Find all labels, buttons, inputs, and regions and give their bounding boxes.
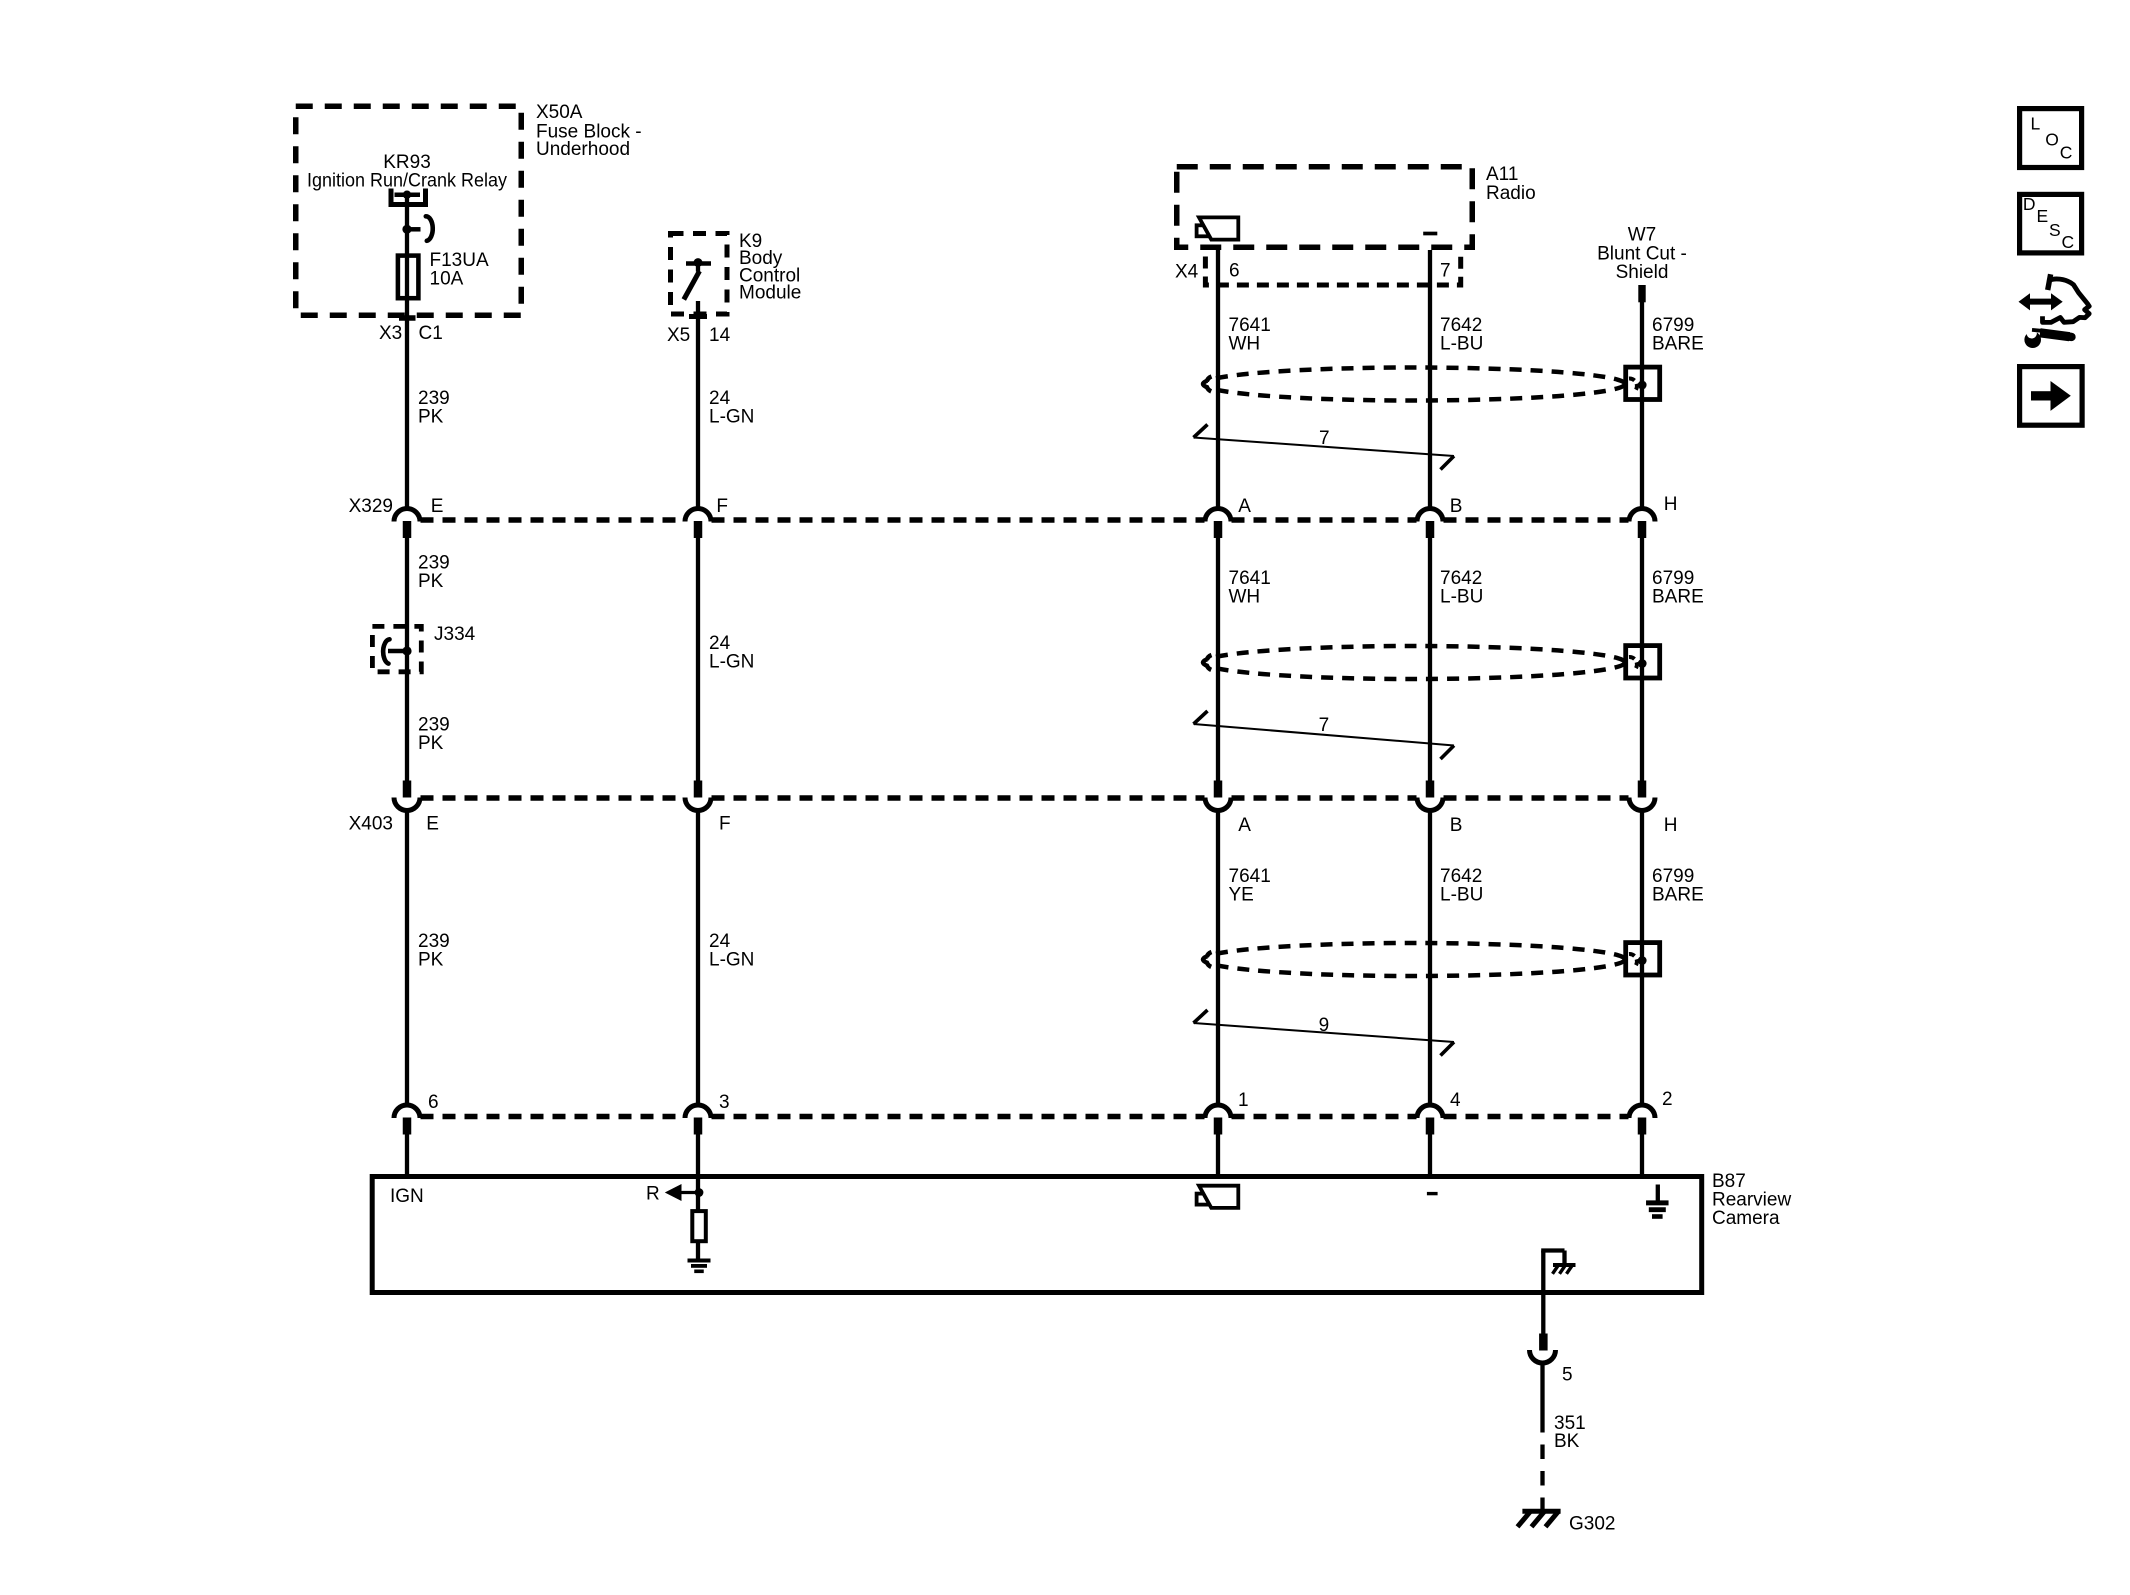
relay KR93 contact: [391, 189, 433, 241]
svg-text:L: L: [2031, 113, 2041, 133]
connector X403 pin B: [1417, 781, 1443, 811]
label connector X3 C1: [379, 323, 443, 344]
svg-text:10A: 10A: [430, 269, 464, 290]
svg-text:PK: PK: [418, 406, 444, 427]
wire 24 L-GN column (reverse signal): [696, 301, 700, 1193]
svg-text:BARE: BARE: [1652, 586, 1704, 607]
wire 239 PK column (ignition feed): [405, 195, 409, 1178]
svg-text:C1: C1: [419, 323, 443, 344]
wire 7642 L-BU column (camera return): [1428, 250, 1432, 1178]
svg-text:WH: WH: [1229, 586, 1261, 607]
svg-text:Module: Module: [739, 283, 801, 304]
svg-text:B: B: [1450, 496, 1463, 517]
wire 351 BK: [1540, 1363, 1544, 1509]
svg-text:X5: X5: [667, 325, 690, 346]
icon LOC box: [2020, 109, 2082, 168]
splice J334 box: [372, 626, 421, 671]
camera icon (in A11 radio box): [1197, 217, 1239, 239]
resistor (reverse pull): [692, 1193, 706, 1259]
svg-text:14: 14: [709, 325, 731, 346]
label wire 239 PK (section 1): [418, 388, 450, 427]
svg-text:E: E: [431, 496, 444, 517]
connector X4 dashed outline: [1205, 257, 1460, 286]
svg-text:Ignition Run/Crank Relay: Ignition Run/Crank Relay: [307, 171, 507, 192]
label W7 Blunt Cut - Shield: [1597, 225, 1687, 284]
svg-text:L-GN: L-GN: [709, 652, 754, 673]
mini chassis ground symbol: [1553, 1265, 1576, 1274]
svg-text:BK: BK: [1554, 1431, 1580, 1452]
camera connector row dashed line: [421, 1114, 1629, 1120]
minus pin (in B87 box): [1427, 1192, 1438, 1195]
label wire 239 PK (section 2 upper): [418, 553, 450, 592]
label wire 7642 L-BU (section 2): [1440, 568, 1483, 607]
label wire 24 L-GN (section 3): [709, 931, 754, 970]
connector X329 pin H: [1629, 509, 1655, 538]
svg-text:YE: YE: [1229, 884, 1254, 905]
connector camera pin 5: [1530, 1334, 1556, 1364]
shield symbol (section 2): [1203, 646, 1660, 679]
svg-text:PK: PK: [418, 571, 444, 592]
wire 6799 BARE column (shield drain): [1640, 301, 1644, 1178]
connector row X329 dashed line: [421, 517, 1629, 523]
label KR93 Ignition Run/Crank Relay: [307, 152, 507, 192]
label connector X4 pins 6 7: [1175, 261, 1451, 283]
svg-text:X403: X403: [349, 814, 393, 835]
svg-text:L-BU: L-BU: [1440, 586, 1483, 607]
svg-text:1: 1: [1238, 1090, 1249, 1111]
splice J334 symbol: [383, 639, 411, 663]
svg-text:L-GN: L-GN: [709, 949, 754, 970]
svg-text:9: 9: [1319, 1015, 1330, 1036]
svg-text:C: C: [2060, 143, 2073, 163]
signal ground (below resistor): [688, 1261, 711, 1272]
connector camera pin 2: [1629, 1105, 1655, 1135]
svg-text:J334: J334: [434, 624, 476, 645]
label wire 6799 BARE (section 2): [1652, 568, 1704, 607]
svg-text:H: H: [1664, 815, 1678, 836]
svg-text:D: D: [2023, 194, 2036, 214]
connector camera pin 4: [1417, 1105, 1443, 1135]
svg-text:WH: WH: [1229, 333, 1261, 354]
svg-text:W7: W7: [1628, 225, 1657, 246]
svg-text:X3: X3: [379, 323, 402, 344]
svg-text:Underhood: Underhood: [536, 139, 630, 160]
svg-text:PK: PK: [418, 949, 444, 970]
svg-text:4: 4: [1450, 1090, 1461, 1111]
connector X329 pin E: [394, 509, 420, 538]
svg-text:BARE: BARE: [1652, 333, 1704, 354]
label wire 239 PK (section 2 lower): [418, 715, 450, 754]
svg-text:PK: PK: [418, 733, 444, 754]
twisted pair callout 7 (section 2): [1194, 711, 1455, 759]
wire 7641 WH/YE column (camera signal): [1216, 250, 1220, 1178]
icon vehicle with arrows and wrench: [2019, 274, 2090, 348]
label row X329: [349, 494, 1678, 517]
twisted pair callout 7 (section 1): [1194, 425, 1455, 470]
ground G302: [1518, 1511, 1561, 1527]
connector X329 pin F: [685, 509, 711, 538]
shield symbol (section 1): [1203, 367, 1660, 400]
label connector X5 14: [667, 325, 731, 346]
label wire 239 PK (section 3): [418, 931, 450, 970]
label wire 7642 L-BU (section 1): [1440, 315, 1483, 354]
connector camera pin 3: [685, 1105, 711, 1135]
connector X403 pin E: [394, 781, 420, 811]
svg-text:IGN: IGN: [390, 1186, 424, 1207]
radio A11 box: [1177, 167, 1473, 248]
icon DESC box: [2020, 194, 2082, 253]
connector X403 pin H: [1629, 781, 1655, 811]
icon next-page arrow box: [2020, 367, 2083, 426]
svg-text:L-GN: L-GN: [709, 406, 754, 427]
svg-text:5: 5: [1562, 1365, 1573, 1386]
svg-text:C: C: [2062, 232, 2075, 252]
label wire 7641 WH (section 1): [1229, 315, 1271, 354]
label wire 7641 YE (section 3): [1229, 866, 1271, 905]
svg-text:2: 2: [1662, 1089, 1673, 1110]
label wire 7641 WH (section 2): [1229, 568, 1271, 607]
svg-text:BARE: BARE: [1652, 884, 1704, 905]
label row X403: [349, 814, 1678, 837]
earth ground bars: [1646, 1203, 1669, 1217]
label wire 6799 BARE (section 3): [1652, 866, 1704, 905]
label B87 Rearview Camera: [1712, 1171, 1791, 1229]
earth ground (pin 2, in B87 box): [1656, 1185, 1660, 1202]
label K9 Body Control Module: [739, 231, 801, 304]
svg-text:H: H: [1664, 494, 1678, 515]
camera B87 box: [372, 1177, 1702, 1293]
connector X403 pin F: [685, 781, 711, 811]
label wire 24 L-GN (section 2): [709, 633, 754, 673]
svg-text:E: E: [2037, 206, 2049, 226]
internal chassis ground bracket: [1541, 1251, 1564, 1334]
connector camera pin 6: [394, 1105, 420, 1135]
label X50A Fuse Block - Underhood: [536, 102, 642, 160]
conductor count callout 9 (section 3): [1194, 1010, 1455, 1056]
shield symbol (section 3): [1203, 943, 1660, 976]
label wire 7642 L-BU (section 3): [1440, 866, 1483, 905]
minus pin (in A11 radio box): [1423, 232, 1437, 236]
connector row X403 dashed line: [421, 795, 1629, 801]
label wire 351 BK: [1554, 1413, 1586, 1452]
connector X403 pin A: [1205, 781, 1231, 811]
svg-text:X50A: X50A: [536, 102, 583, 123]
svg-text:3: 3: [719, 1092, 730, 1113]
label wire 6799 BARE (section 1): [1652, 315, 1704, 354]
svg-text:A: A: [1238, 496, 1251, 517]
connector X329 pin B: [1417, 509, 1443, 538]
svg-text:S: S: [2049, 220, 2061, 240]
fuse block X50A box: [296, 106, 522, 318]
reverse input R node: [665, 1184, 704, 1201]
connector X329 pin A: [1205, 509, 1231, 538]
svg-text:O: O: [2045, 129, 2059, 149]
svg-text:X329: X329: [349, 496, 393, 517]
svg-text:7: 7: [1319, 428, 1330, 449]
svg-text:L-BU: L-BU: [1440, 884, 1483, 905]
svg-text:X4: X4: [1175, 262, 1199, 283]
svg-text:B: B: [1450, 815, 1463, 836]
svg-text:6: 6: [428, 1092, 439, 1113]
connector camera pin 1: [1205, 1105, 1231, 1135]
svg-text:Camera: Camera: [1712, 1208, 1780, 1229]
svg-text:7: 7: [1440, 261, 1451, 282]
fuse F13UA 10A: [398, 256, 419, 299]
svg-text:6: 6: [1229, 261, 1240, 282]
svg-text:F: F: [716, 496, 728, 517]
label F13UA 10A: [430, 250, 489, 290]
label camera row pins 6 3 1 4 2: [428, 1089, 1673, 1113]
switch (K9 internal driver): [684, 258, 711, 299]
svg-text:F: F: [719, 814, 731, 835]
svg-text:A: A: [1238, 815, 1251, 836]
svg-text:R: R: [646, 1183, 660, 1204]
svg-text:7: 7: [1319, 715, 1330, 736]
svg-text:G302: G302: [1569, 1514, 1615, 1535]
label wire 24 L-GN (section 1): [709, 388, 754, 427]
svg-text:Radio: Radio: [1486, 183, 1536, 204]
svg-text:L-BU: L-BU: [1440, 333, 1483, 354]
blunt cut W7 terminal stub: [1638, 285, 1645, 302]
svg-text:E: E: [426, 814, 439, 835]
label A11 Radio: [1486, 164, 1536, 204]
camera icon (in B87 box): [1197, 1186, 1239, 1208]
svg-text:Shield: Shield: [1616, 262, 1669, 283]
module K9 box: [671, 234, 728, 317]
